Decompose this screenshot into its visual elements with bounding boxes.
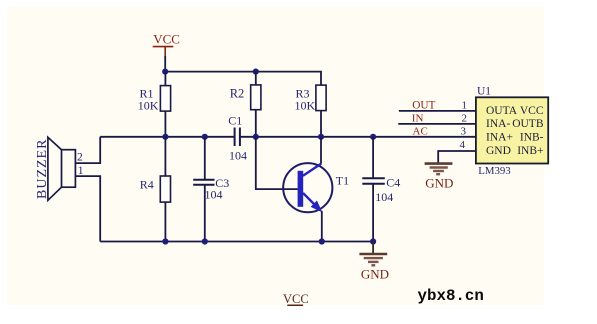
svg-text:2: 2	[77, 152, 83, 164]
capacitor C1	[228, 113, 247, 162]
svg-text:OUT: OUT	[412, 100, 435, 112]
power symbol VCC (top)	[153, 32, 180, 57]
wire buzzer pin 1 to bottom rail	[75, 176, 100, 241]
svg-text:INB-: INB-	[520, 131, 544, 143]
buzzer LS (speaker symbol)	[35, 137, 84, 200]
svg-text:U1: U1	[477, 86, 491, 98]
ground GND (near U1 pin 4)	[425, 164, 454, 191]
svg-text:3: 3	[461, 126, 467, 138]
svg-text:1: 1	[462, 100, 468, 112]
svg-text:2: 2	[462, 112, 468, 124]
node VCC/R1 junction	[162, 69, 168, 75]
node R2 bottom / base junction	[253, 134, 259, 140]
power label VCC (bottom)	[283, 292, 309, 306]
pin 2 number	[462, 112, 468, 124]
resistor R1	[138, 72, 171, 137]
wire pin 4 to ground	[438, 151, 476, 163]
svg-text:10K: 10K	[138, 99, 159, 113]
svg-text:104: 104	[375, 190, 393, 204]
svg-text:BUZZER: BUZZER	[35, 139, 50, 199]
svg-text:VCC: VCC	[520, 105, 544, 117]
node emitter junction	[319, 238, 325, 244]
wire VCC stub down to top rail	[164, 56, 166, 72]
svg-text:AC: AC	[413, 126, 428, 138]
node R1 bottom junction	[162, 134, 168, 140]
wire mid rail (left of C1)	[100, 136, 234, 138]
svg-text:1: 1	[78, 165, 84, 177]
op-amp comparator U1 LM393	[476, 86, 548, 178]
node C3 top junction	[202, 134, 208, 140]
svg-text:LM393: LM393	[478, 165, 510, 177]
svg-text:ybx8.cn: ybx8.cn	[418, 287, 484, 305]
watermark ybx8.cn	[418, 287, 484, 305]
ground GND (bottom, below C4)	[359, 242, 389, 282]
svg-text:GND: GND	[361, 266, 389, 281]
wire mid rail / net AC (right of C1)	[240, 136, 476, 138]
net OUT (pin 1 wire + label)	[399, 100, 476, 112]
wire bottom rail	[100, 241, 373, 243]
net label AC (on mid rail)	[413, 126, 428, 138]
pin 4 number	[460, 139, 466, 151]
svg-text:C1: C1	[228, 113, 242, 127]
wire base (from R2 bottom junction to T1 base)	[256, 137, 298, 189]
node C4 top / AC junction	[370, 134, 376, 140]
wire buzzer pin 2 to mid rail	[75, 137, 100, 163]
svg-text:INA-: INA-	[486, 118, 510, 130]
svg-text:GND: GND	[425, 175, 453, 190]
capacitor C3	[193, 137, 229, 242]
net IN (pin 2 wire + label)	[398, 112, 476, 124]
resistor R2	[230, 72, 261, 137]
svg-text:IN: IN	[412, 112, 424, 124]
svg-text:VCC: VCC	[283, 292, 309, 306]
svg-text:R2: R2	[230, 86, 245, 100]
pin 3 number	[461, 126, 467, 138]
svg-text:INB+: INB+	[517, 145, 543, 157]
wire top rail	[165, 72, 321, 86]
wire collector	[320, 137, 322, 164]
svg-text:GND: GND	[486, 145, 511, 157]
svg-text:C4: C4	[386, 175, 400, 189]
node R2 top junction	[253, 69, 259, 75]
svg-text:OUTA: OUTA	[486, 105, 518, 117]
svg-text:104: 104	[229, 149, 247, 163]
transistor T1 (NPN)	[283, 163, 349, 212]
svg-text:T1: T1	[336, 174, 349, 188]
node C3 bottom junction	[202, 238, 208, 244]
node R3 bottom / collector junction	[318, 134, 324, 140]
pin 1 number	[462, 100, 468, 112]
capacitor C4	[362, 137, 400, 242]
svg-text:VCC: VCC	[153, 32, 180, 47]
svg-text:4: 4	[460, 139, 466, 151]
node R4 bottom junction	[162, 238, 168, 244]
svg-text:10K: 10K	[295, 99, 316, 113]
resistor R4	[140, 137, 171, 242]
svg-text:R4: R4	[140, 177, 154, 191]
svg-text:104: 104	[205, 188, 223, 202]
wire emitter	[321, 211, 323, 242]
resistor R3	[295, 85, 327, 137]
node C4 bottom / GND junction	[370, 238, 376, 244]
svg-text:INA+: INA+	[486, 131, 513, 143]
svg-text:OUTB: OUTB	[512, 118, 544, 130]
